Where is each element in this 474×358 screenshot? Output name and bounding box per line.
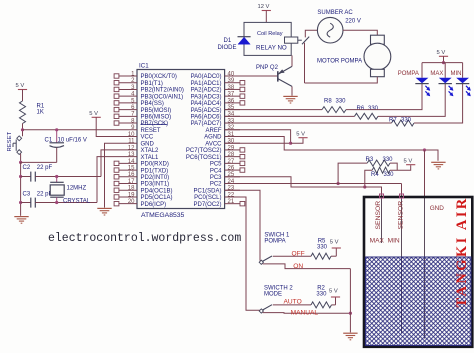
svg-text:10: 10 [128,132,135,138]
svg-text:1K: 1K [37,110,44,116]
svg-text:PD6(ICP): PD6(ICP) [141,202,167,208]
svg-text:RESET: RESET [7,131,13,151]
svg-text:IC1: IC1 [139,63,149,70]
svg-text:C3: C3 [23,192,31,198]
svg-text:PB0(XCK/T0): PB0(XCK/T0) [141,74,177,80]
svg-text:330: 330 [316,291,327,297]
svg-text:330: 330 [401,118,412,124]
svg-text:R8: R8 [324,98,332,104]
svg-text:R7: R7 [389,118,397,124]
svg-text:SUMBER AC: SUMBER AC [317,10,353,16]
svg-text:21: 21 [228,199,235,205]
svg-text:PC2: PC2 [210,182,222,188]
svg-text:POMPA: POMPA [264,238,285,244]
svg-text:330: 330 [317,244,328,250]
svg-text:31: 31 [228,132,235,138]
svg-text:5 V: 5 V [296,132,305,138]
svg-text:Coil Relay: Coil Relay [257,31,283,37]
svg-text:5 V: 5 V [404,158,413,164]
svg-text:PB1(T1): PB1(T1) [141,81,163,87]
svg-text:5 V: 5 V [329,288,338,294]
svg-text:MOTOR POMPA: MOTOR POMPA [317,58,362,64]
svg-text:PD1(TXD): PD1(TXD) [141,168,169,174]
svg-text:20: 20 [128,199,135,205]
svg-text:29: 29 [228,145,235,151]
svg-text:TANGKI AIR: TANGKI AIR [454,196,470,307]
svg-text:ATMEGA8535: ATMEGA8535 [141,212,185,219]
svg-text:PC6(TOSC1): PC6(TOSC1) [186,155,222,161]
svg-text:12: 12 [128,145,135,151]
svg-text:32: 32 [228,125,235,131]
svg-text:PC3: PC3 [210,175,222,181]
svg-text:PD7(OC2): PD7(OC2) [193,202,221,208]
svg-text:MIN: MIN [451,71,462,77]
svg-text:220 V: 220 V [345,19,361,25]
svg-text:D1: D1 [224,38,232,44]
svg-text:22 pF: 22 pF [37,165,53,171]
svg-text:PB7(SCK): PB7(SCK) [141,121,169,127]
svg-text:PC1(SDA): PC1(SDA) [193,188,221,194]
svg-text:PA6(ADC6): PA6(ADC6) [191,115,222,121]
svg-text:11: 11 [128,139,135,145]
svg-text:CRYSTAL: CRYSTAL [63,198,91,204]
svg-text:PA1(ADC1): PA1(ADC1) [191,81,222,87]
svg-text:5 V: 5 V [330,239,339,245]
svg-text:PNP Q2: PNP Q2 [256,65,279,71]
svg-text:GND: GND [141,141,155,147]
svg-text:PA0(ADC0): PA0(ADC0) [191,74,222,80]
svg-text:RESET: RESET [141,128,161,134]
svg-text:AREF: AREF [205,128,221,134]
svg-text:5 V: 5 V [89,111,98,117]
svg-text:PD2(INT0): PD2(INT0) [141,175,170,181]
svg-text:AVCC: AVCC [205,141,222,147]
svg-text:VCC: VCC [141,135,154,141]
svg-text:ON: ON [293,263,303,270]
svg-text:PA3(ADC3): PA3(ADC3) [191,94,222,100]
svg-text:AUTO: AUTO [284,298,302,305]
svg-text:MIN: MIN [388,237,400,244]
svg-text:MANUAL: MANUAL [291,309,319,316]
svg-text:PB6(MISO): PB6(MISO) [141,115,172,121]
svg-text:MODE: MODE [264,291,282,297]
svg-text:12MHZ: 12MHZ [67,186,87,192]
svg-text:PD5(OC1A): PD5(OC1A) [141,195,173,201]
svg-text:MAX: MAX [430,71,443,77]
svg-text:XTAL1: XTAL1 [141,155,160,161]
svg-text:MAX: MAX [370,237,385,244]
svg-text:PB2(INT2/AIN0): PB2(INT2/AIN0) [141,88,184,94]
svg-text:PB4(SS): PB4(SS) [141,101,164,107]
svg-text:PD3(INT1): PD3(INT1) [141,182,170,188]
svg-text:PA7(ADC7): PA7(ADC7) [191,121,222,127]
svg-text:5 V: 5 V [16,83,25,89]
svg-text:SENSOR: SENSOR [398,201,405,230]
svg-text:PC7(TOSC2): PC7(TOSC2) [186,148,222,154]
svg-text:12 V: 12 V [258,4,270,10]
svg-text:PA2(ADC2): PA2(ADC2) [191,88,222,94]
svg-text:5 V: 5 V [437,50,446,56]
svg-text:DIODE: DIODE [218,45,237,51]
svg-text:RELAY NO: RELAY NO [256,45,287,52]
svg-text:PA5(ADC5): PA5(ADC5) [191,108,222,114]
svg-text:PC5: PC5 [210,162,222,168]
svg-text:PC0(SCL): PC0(SCL) [194,195,221,201]
svg-text:SENSOR: SENSOR [375,201,382,230]
svg-text:PB5(MOSI): PB5(MOSI) [141,108,172,114]
svg-text:PA4(ADC4): PA4(ADC4) [191,101,222,107]
svg-text:PD0(RXD): PD0(RXD) [141,162,169,168]
svg-text:XTAL2: XTAL2 [141,148,160,154]
svg-text:POMPA: POMPA [398,71,419,77]
svg-text:C2: C2 [23,165,31,171]
svg-text:electrocontrol.wordpress.com: electrocontrol.wordpress.com [48,232,241,245]
svg-text:330: 330 [336,98,347,104]
svg-text:PC4: PC4 [210,168,222,174]
svg-text:AGND: AGND [204,135,222,141]
svg-text:PD4(OC1B): PD4(OC1B) [141,188,173,194]
svg-text:OFF: OFF [292,250,305,257]
svg-text:GND: GND [430,205,445,212]
svg-text:30: 30 [228,139,235,145]
svg-text:PB3(OC0/AIN1): PB3(OC0/AIN1) [141,94,184,100]
svg-text:R4: R4 [371,172,379,178]
